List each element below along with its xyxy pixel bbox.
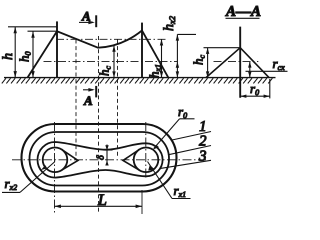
section level dash-dot [214, 61, 259, 63]
ground hatching [2, 78, 273, 83]
label r_cx with leader [246, 56, 288, 72]
small dimension at r_cx [248, 62, 251, 78]
r0 dimension (section) [240, 79, 270, 98]
horizontal centerline [12, 159, 206, 161]
level line h_x1 (dash-dot) [56, 38, 166, 40]
dimension h [14, 27, 17, 78]
extension top of section h_c [204, 47, 241, 49]
section mark A bottom [83, 86, 96, 98]
projection dashed line x=76 [75, 40, 77, 159]
L extension right [141, 190, 143, 214]
projection dashed line x=117.5 [117, 40, 119, 159]
svg-text:hc: hc [191, 55, 207, 66]
label r_x2 with leader [2, 162, 55, 193]
svg-text:rcx: rcx [273, 56, 286, 72]
cone wedge left [62, 149, 78, 170]
section electrode [239, 27, 241, 98]
electrode 2 (right rod) [141, 23, 143, 78]
dimension h_c [112, 46, 115, 78]
delta dimension [103, 145, 113, 166]
ground [4, 77, 276, 79]
label r_x1 with leader [148, 162, 191, 200]
dimension h0 [31, 31, 34, 77]
svg-text:hx1: hx1 [147, 64, 163, 78]
svg-text:δ: δ [96, 155, 107, 160]
label 1 with leader [172, 119, 211, 140]
extension line top of h [8, 26, 57, 28]
dimension h_x1 [160, 39, 163, 77]
level line lower (dash-dot) [44, 61, 178, 63]
svg-text:h0: h0 [17, 52, 33, 63]
label 3 with leader [161, 148, 212, 168]
contour 1 outer stadium [22, 124, 177, 192]
electrode circle left (r0) [43, 148, 68, 173]
svg-text:rx2: rx2 [5, 176, 18, 192]
extension top of h_x2 [177, 33, 196, 35]
dimension L [55, 205, 143, 209]
projection dashed line x=98.5 (section plane) [98, 36, 100, 213]
svg-text:L: L [97, 192, 107, 209]
svg-text:A: A [81, 9, 91, 24]
electrode 1 (left rod) [56, 21, 58, 77]
contour 2 middle stadium [30, 132, 170, 186]
electrode circle right (r0) [134, 148, 159, 173]
section mark A top [79, 15, 96, 27]
cone wedge right [123, 149, 139, 170]
svg-text:h: h [1, 53, 16, 60]
label r0 with leader (plan) [153, 104, 195, 150]
title underline [226, 17, 260, 19]
svg-text:A—A: A—A [225, 4, 261, 20]
svg-text:rx1: rx1 [174, 183, 187, 199]
extension line top of h0 [28, 30, 58, 32]
svg-text:hx2: hx2 [162, 15, 177, 31]
svg-text:A: A [83, 93, 93, 108]
svg-text:r0: r0 [178, 104, 187, 120]
vertical centerline right [145, 122, 147, 180]
dimension h_x2 [176, 34, 179, 77]
label 2 with leader [168, 134, 211, 155]
vertical centerline left [54, 122, 56, 214]
dimension section h_c [206, 48, 209, 78]
potential curve [28, 31, 169, 78]
contour 3 pinched (peanut) [38, 142, 163, 178]
section cone triangle [206, 48, 269, 78]
svg-text:r0: r0 [250, 81, 259, 97]
